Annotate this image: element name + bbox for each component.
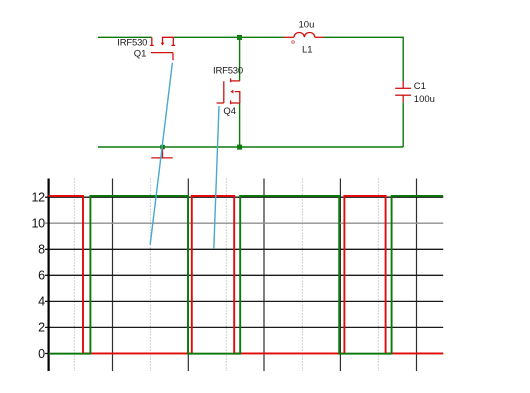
transistor Q1 (IRF530, horizontal) — [150, 37, 175, 60]
svg-text:100u: 100u — [414, 94, 435, 105]
svg-text:4: 4 — [38, 295, 45, 309]
wire right rail lower — [402, 102, 404, 147]
svg-text:2: 2 — [38, 321, 45, 335]
svg-text:IRF530: IRF530 — [117, 37, 147, 48]
inductor L1 — [284, 33, 324, 38]
svg-text:Q1: Q1 — [134, 48, 147, 59]
ground symbol (0) — [151, 147, 173, 158]
plot y-axis — [47, 179, 49, 372]
svg-text:10: 10 — [31, 217, 45, 231]
probe marker line to Q1 gate — [150, 63, 172, 245]
transistor Q4 arrow — [230, 90, 233, 94]
svg-text:12: 12 — [31, 191, 45, 205]
svg-text:Q4: Q4 — [223, 106, 236, 117]
wire bottom rail — [98, 146, 403, 148]
svg-text:0: 0 — [38, 347, 45, 361]
svg-text:IRF530: IRF530 — [213, 65, 243, 76]
probe marker line to Q4 gate — [214, 106, 219, 249]
capacitor C1 — [395, 81, 411, 102]
transistor Q4 (IRF530, vertical) — [217, 78, 240, 104]
wire Q4 source to bottom rail — [239, 103, 241, 147]
node junction bottom Q4 source — [237, 145, 242, 150]
node junction top rail — [237, 35, 242, 40]
plot major vertical gridlines — [113, 179, 417, 372]
wire Q4 drain to top rail — [239, 37, 241, 81]
svg-text:10u: 10u — [299, 19, 315, 30]
plot horizontal gridlines with ticks — [45, 197, 443, 353]
wire right rail upper — [402, 37, 404, 81]
svg-text:C1: C1 — [414, 81, 426, 92]
svg-text:6: 6 — [38, 269, 45, 283]
plot minor dotted vertical gridlines — [74, 179, 378, 372]
wire top rail middle segment — [174, 36, 284, 38]
inductor L1 pin-1 marker — [292, 41, 295, 44]
node junction bottom ground — [160, 145, 165, 150]
svg-text:L1: L1 — [302, 45, 313, 56]
wire top rail left segment — [98, 36, 152, 38]
green trace V(Q4 gate) — [49, 196, 443, 354]
transistor Q1 arrow — [161, 43, 165, 46]
wire top rail right segment — [324, 36, 404, 38]
svg-text:8: 8 — [38, 243, 45, 257]
red trace V(Q1 gate) — [49, 196, 443, 353]
y-axis labels — [31, 191, 45, 361]
